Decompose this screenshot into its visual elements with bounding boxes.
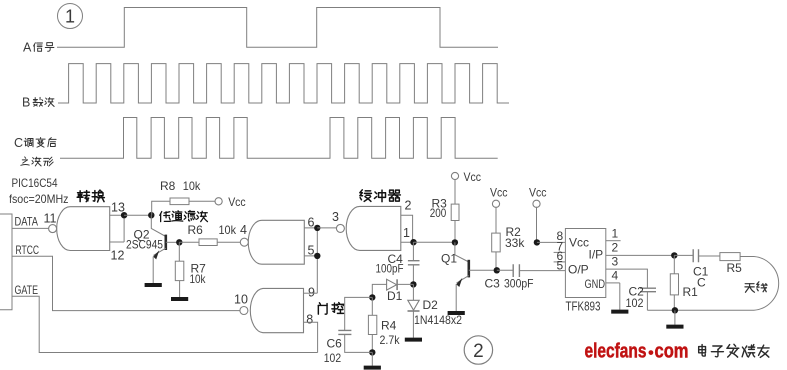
resistor R1 [670,274,678,295]
svg-text:elecfans: elecfans [585,341,647,363]
svg-text:I/P: I/P [589,248,604,262]
svg-text:2: 2 [612,240,619,254]
node R4/C6 bottom [369,349,375,355]
wire R1 to rail [673,295,675,310]
wire C6 bottom to node [345,334,373,352]
svg-text:O/P: O/P [568,263,589,277]
gate C stub 9 [304,292,318,294]
svg-text:10k: 10k [219,223,237,237]
junction pins13-12 [121,212,127,218]
wire to Q2 collector node [124,214,151,216]
label C diao-bian-hou [24,138,33,146]
Q1 collector lead [455,242,469,262]
node R1 bottom rail [672,307,678,313]
NAND gate U1c 8/9->10 [250,288,303,332]
wire D1 anode to R4 top node [372,284,386,297]
wire R5 to antenna [740,256,754,258]
NAND gate U1a 1/2->3 buffer [346,206,401,250]
capacitor C2 102 [640,288,656,292]
capacitor C4 100pF [408,261,420,265]
svg-text:10k: 10k [190,272,207,286]
svg-text:2: 2 [473,341,484,362]
label B zaibo [33,97,43,106]
wire C3 to TFK pin5 [519,270,565,272]
Vcc terminal above R2 [492,200,499,207]
svg-text:1: 1 [612,226,619,240]
wire R8 left to collector node [152,201,170,215]
wire node to R4 [371,297,373,315]
wire DATA to gate output bubble [12,227,49,229]
svg-text:R8: R8 [160,179,176,193]
Q2 collector lead [151,215,166,236]
label A xinhao [34,43,43,52]
wire Vcc to R3 [454,179,456,204]
svg-text:GATE: GATE [15,283,39,297]
node Q2 collector / R8 [148,212,154,218]
svg-text:com: com [655,341,689,363]
label menkong (gate control) [318,303,327,314]
ground below Q2 emitter [152,257,154,284]
svg-text:PIC16C54: PIC16C54 [12,178,59,190]
svg-text:5: 5 [308,243,315,257]
wire R6 to gate B output [217,241,240,243]
wire R2 to base node [495,252,497,270]
svg-text:Vcc: Vcc [490,186,508,200]
Vcc terminal above TFK pin8 [533,200,540,207]
label tianxian (antenna) [745,284,755,293]
ground below D2 [412,311,414,338]
ground below R1 [674,310,676,325]
resistor R2 33k [492,233,501,252]
svg-text:1: 1 [65,7,75,27]
resistor R4 2.7k [368,315,376,334]
wire TFK pin3 to C2 [606,269,648,288]
svg-text:2: 2 [405,199,412,213]
capacitor C1 [693,249,698,262]
svg-text:Vcc: Vcc [529,186,547,200]
svg-text:C: C [697,276,706,290]
svg-text:R1: R1 [683,285,699,299]
wire Vcc to R2 [495,207,497,233]
svg-text:102: 102 [626,296,644,310]
svg-text:3: 3 [332,210,339,224]
svg-text:6: 6 [308,215,315,229]
svg-text:Q1: Q1 [441,251,457,265]
label zhuanhuan (convert) [77,191,89,202]
diode D2 [412,284,414,300]
circled number 1 [58,4,83,29]
junction pin6 [314,225,320,231]
wire to buffer output [317,227,337,229]
wire D1 cathode to node [397,283,413,285]
node D1/R4/C6 [369,294,375,300]
svg-text:12: 12 [111,249,125,263]
waveform C [60,118,498,159]
svg-text:200: 200 [430,206,447,220]
wire to pin 8 [537,241,566,243]
svg-text:9: 9 [308,285,315,299]
svg-text:Vcc: Vcc [464,170,482,184]
label ditonglvbo (low-pass filter) [160,212,171,222]
Q2 base lead [166,241,180,243]
diode D1 [387,279,397,290]
resistor R5 [720,253,740,261]
svg-text:100pF: 100pF [376,262,404,276]
junction pin8 Vcc [534,239,540,245]
svg-text:5: 5 [557,259,564,273]
svg-text:D2: D2 [423,298,439,312]
ground below Q1 emitter [455,284,457,311]
svg-text:C6: C6 [327,337,343,351]
resistor R6 [199,239,217,246]
wire tie 6-5 and down to 9 [316,228,318,293]
wire RTCC to gate C output [12,256,240,310]
PIC16C54 chip edge [0,214,12,310]
junction pin5 [314,253,320,259]
wire C2 to rail [646,292,648,311]
wire base to R7 [178,242,180,261]
wire R3 to node [454,221,456,243]
svg-text:GND: GND [585,277,606,291]
wire C4 to D1/D2 node [412,265,414,285]
NAND gate U1b 5/6->4 [248,220,304,264]
svg-text:R4: R4 [381,319,397,333]
wire C1 to R5 [699,255,720,257]
svg-text:D1: D1 [387,289,403,303]
ground below R7 [179,281,181,298]
waveform A [57,8,498,48]
antenna loop [754,257,779,311]
wire node to R1 [673,255,675,273]
wire R4 to bottom node [371,335,373,353]
label C zhi-bo-xing [21,157,29,165]
svg-text:10k: 10k [183,179,201,193]
Q2 emitter lead [153,248,165,255]
Q1 emitter lead [457,276,469,283]
svg-text:11: 11 [44,212,57,226]
svg-text:10: 10 [234,293,248,307]
IC TFK893 transmitter module [565,229,605,298]
bottom rail [647,309,754,311]
resistor R7 10k [175,261,184,280]
svg-text:33k: 33k [505,236,525,250]
gate C stub 8 down to GATE line [304,322,318,352]
gate B input stubs [304,228,317,256]
svg-text:Vcc: Vcc [569,236,589,250]
svg-text:B: B [22,96,30,110]
svg-text:300pF: 300pF [504,276,534,290]
svg-text:4: 4 [240,223,247,237]
NAND gate U1d 13/12->11 [57,207,110,251]
waveform B [58,64,509,103]
svg-text:1: 1 [403,226,410,240]
wire base node to R6 [179,241,199,243]
svg-text:C3: C3 [485,277,501,291]
wire node to C3 [497,269,513,271]
svg-text:fsoc=20MHz: fsoc=20MHz [9,192,69,206]
svg-text:102: 102 [324,351,342,365]
TFK pin 6 stub [554,261,566,263]
TFK pin 1 stub [606,240,621,242]
resistor R8 10k [170,198,189,205]
gate D input stubs 13 12 tied [110,215,124,242]
svg-text:A: A [23,41,32,55]
TFK pin 7 stub [554,251,566,253]
wire Vcc down to pin8 [536,207,538,243]
buffer input stubs 2 1 tied [401,215,414,242]
svg-text:1N4148x2: 1N4148x2 [414,313,462,327]
ground below TFK pin4 [619,283,621,310]
junction pin1 node [410,239,416,245]
resistor R3 200 [451,204,459,220]
svg-text:Vcc: Vcc [228,195,246,209]
node R3/Q1 collector [452,239,458,245]
svg-text:2.7k: 2.7k [380,333,401,347]
svg-text:3: 3 [612,254,619,268]
wire node to C1 [674,254,693,256]
wire down to C4 [412,242,414,260]
svg-text:TFK893: TFK893 [566,300,601,314]
svg-text:8: 8 [306,313,313,327]
wire TFK pin2 to C1/R1 node [606,254,675,256]
ground below R4 [371,352,373,365]
capacitor C3 300pF [513,264,519,277]
svg-text:4: 4 [612,269,619,283]
capacitor C6 102 [338,330,351,334]
watermark dianzifashaoyou [699,345,706,357]
node pin2/C1/R1 [671,252,677,258]
wire GATE to gate C input 8 [12,296,318,352]
svg-text:DATA: DATA [15,215,39,229]
TFK pin 4 stub [606,282,620,284]
wire node to C6 top [345,297,373,330]
node Q1 base/R2/C3 [494,267,500,273]
wire buffer node to R3 bottom [414,241,455,243]
Q1 base lead [469,269,497,271]
svg-text:R5: R5 [727,261,743,275]
circled number 2 [464,336,492,364]
Vcc terminal above R3 [451,172,458,179]
wire R8 to Vcc [189,200,216,202]
svg-text:C: C [14,136,23,150]
svg-text:R6: R6 [188,223,204,237]
node C4/D1/D2 [410,281,416,287]
svg-text:2SC945: 2SC945 [126,238,163,252]
Vcc terminal near R8 [215,198,222,205]
node Q2 base [176,239,182,245]
label huanchongqi (buffer) [360,190,372,202]
svg-text:RTCC: RTCC [16,243,40,257]
